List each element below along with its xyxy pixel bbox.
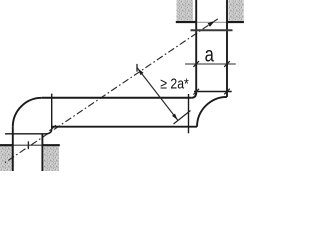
arrowhead of diagonal at top wall — [208, 21, 215, 27]
wall top-right: block B hatch — [229, 0, 244, 21]
riser BL left edge — [12, 127, 14, 171]
joint tick left — [193, 89, 199, 95]
run top edge — [42, 97, 191, 99]
wall bottom-left: right block hatch — [44, 146, 59, 171]
tick on diagonal at upper measure point — [136, 64, 138, 72]
wall top-right underside line left — [176, 21, 196, 23]
dimension a line — [185, 63, 236, 65]
centreline diagonal (dash-dot) — [5, 19, 218, 163]
right elbow riser-side joint line — [194, 91, 232, 93]
lower arrowhead — [172, 114, 178, 120]
right elbow inner corner arc — [191, 93, 196, 98]
riser BL right edge — [41, 134, 43, 171]
wall bottom-left top line left — [0, 144, 13, 146]
right elbow run-side joint line — [188, 94, 190, 133]
svg-text:≥ 2a*: ≥ 2a* — [160, 75, 189, 92]
riser TR right edge — [226, 0, 228, 97]
wall bottom-left: left block hatch — [0, 146, 12, 171]
left socket joint tick — [49, 125, 56, 131]
dimension 2a leader line — [137, 68, 178, 121]
lower long tick — [174, 111, 191, 125]
wall top-right underside line right — [227, 21, 244, 23]
wall opening face line (light) — [196, 21, 226, 23]
upper arrowhead — [138, 69, 144, 75]
left elbow socket outline — [5, 94, 52, 134]
svg-text:a: a — [205, 44, 214, 67]
left elbow outer arc — [13, 98, 42, 127]
right elbow outer arc — [197, 97, 227, 127]
riser TR left edge — [195, 0, 197, 93]
wall bottom opening face line (thin) — [13, 144, 43, 146]
dimension a tick left — [193, 61, 199, 67]
wall bottom-left top line right — [42, 144, 59, 146]
riser TR sleeve joint line under wall — [191, 29, 233, 31]
joint tick right — [224, 89, 230, 95]
wall top-right: block A hatch — [177, 0, 194, 21]
axis tick at bottom wall opening — [27, 141, 29, 149]
run bottom edge — [52, 126, 197, 128]
dimension a tick right — [224, 61, 230, 67]
